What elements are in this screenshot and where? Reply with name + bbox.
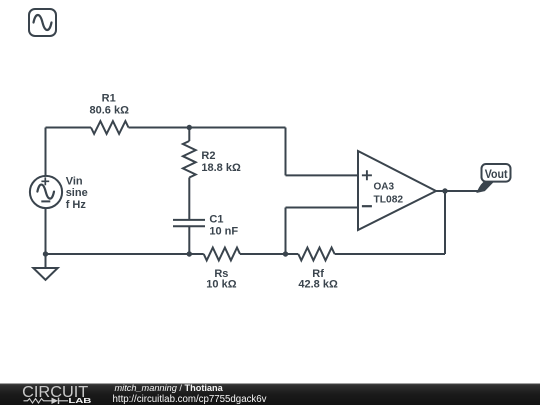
- wire: top rail left segment: [46, 127, 92, 129]
- op-amp OA3: [358, 151, 436, 230]
- wire: bottom rail Rf to feedback: [335, 253, 445, 255]
- node: Rs/Rf minus tap junction: [283, 251, 288, 256]
- wire: feedback vertical: [444, 191, 446, 254]
- wire: R1/R2 junction down to R2: [188, 128, 190, 142]
- wire: bottom rail Rs to Rf: [240, 253, 298, 255]
- wire: minus tap vertical: [285, 208, 287, 255]
- resistor R1: [91, 121, 129, 134]
- node: R1/R2/plus-feed junction: [187, 125, 192, 130]
- svg-text:C1: C1: [209, 214, 223, 226]
- capacitor C1: [173, 220, 205, 226]
- node: ground junction: [43, 251, 48, 256]
- svg-text:10 nF: 10 nF: [209, 225, 238, 237]
- signal generator icon: [29, 9, 56, 36]
- svg-text:f Hz: f Hz: [66, 199, 87, 211]
- svg-text:LAB: LAB: [68, 396, 91, 405]
- wire: minus-input horizontal: [286, 207, 359, 209]
- svg-text:R2: R2: [201, 150, 215, 162]
- svg-text:18.8 kΩ: 18.8 kΩ: [201, 162, 241, 174]
- resistor Rs: [204, 248, 240, 261]
- resistor R2: [183, 141, 196, 178]
- svg-text:80.6 kΩ: 80.6 kΩ: [89, 105, 129, 117]
- logo diode glyph: [49, 398, 69, 404]
- wire: plus-input feed vertical: [285, 128, 287, 176]
- voltage source V1 (Vin): [30, 176, 62, 208]
- wire: R2 bottom to C1 top: [188, 178, 190, 220]
- svg-text:http://circuitlab.com/cp7755dg: http://circuitlab.com/cp7755dgack6v: [113, 394, 267, 405]
- wire: left vertical from top rail to source top: [45, 128, 47, 177]
- svg-text:sine: sine: [66, 187, 88, 199]
- wire: C1 bottom to bottom rail: [188, 226, 190, 254]
- resistor Rf: [298, 248, 334, 261]
- wire: source bottom to ground node: [45, 208, 47, 255]
- wire: plus-input horizontal: [286, 174, 359, 176]
- svg-text:Vout: Vout: [485, 167, 508, 181]
- svg-text:R1: R1: [102, 92, 116, 104]
- svg-text:mitch_manning / Thotiana: mitch_manning / Thotiana: [115, 383, 224, 393]
- svg-text:TL082: TL082: [374, 195, 404, 206]
- wire: top rail right segment: [129, 127, 286, 129]
- svg-text:10 kΩ: 10 kΩ: [206, 279, 236, 291]
- svg-text:Vin: Vin: [66, 175, 83, 187]
- ground: [33, 254, 57, 280]
- net flag Vout: [478, 164, 511, 192]
- svg-text:42.8 kΩ: 42.8 kΩ: [298, 279, 338, 291]
- node: output junction: [442, 188, 447, 193]
- wire: bottom rail from ground node to Rs: [46, 253, 204, 255]
- node: C1 bottom junction: [187, 251, 192, 256]
- wire: op-amp output: [436, 190, 478, 192]
- logo resistor glyph: [24, 399, 49, 403]
- svg-text:OA3: OA3: [374, 182, 395, 193]
